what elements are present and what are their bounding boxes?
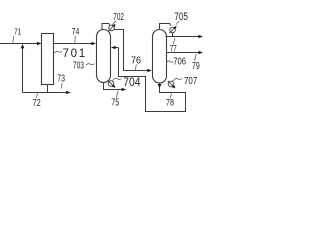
wire column 703 overhead stub	[102, 24, 110, 30]
wire condenser 705 outlet stub	[172, 33, 174, 37]
arrowhead into vessel 701	[37, 42, 42, 46]
svg-text:72: 72	[33, 98, 42, 109]
leader 73	[61, 83, 62, 89]
arrowhead line 75	[122, 88, 127, 92]
arrowhead recycle up	[21, 44, 25, 49]
wire distillate line 77	[166, 36, 199, 38]
leader tilde 703	[86, 64, 95, 65]
arrowhead line 74 into column 703	[91, 42, 96, 46]
arrowhead column 706 bottoms down	[158, 84, 162, 89]
wire recycle riser	[22, 48, 24, 93]
wire solvent loop	[119, 48, 186, 112]
leader 78	[170, 93, 172, 98]
column 703	[97, 30, 111, 83]
wire feed line 71	[0, 43, 37, 45]
leader 702	[112, 21, 116, 25]
svg-text:74: 74	[72, 26, 80, 36]
svg-text:702: 702	[113, 12, 124, 23]
leader 705	[176, 21, 180, 25]
arrowhead reflux into column 703	[111, 46, 116, 50]
arrowhead feed into column 706	[147, 69, 152, 73]
column 706	[153, 30, 167, 84]
leader tilde 707	[172, 78, 182, 81]
wire side draw line 79	[166, 52, 199, 54]
svg-text:78: 78	[166, 97, 174, 107]
svg-text:707: 707	[184, 76, 198, 87]
wire column 703 bottoms line 75	[104, 82, 122, 90]
arrowhead line 77	[198, 35, 203, 39]
svg-text:706: 706	[173, 57, 186, 68]
pump 702	[108, 24, 115, 31]
leader 71	[12, 36, 15, 43]
leader 76	[135, 64, 136, 70]
svg-text:77: 77	[170, 43, 177, 54]
leader tilde 706	[166, 61, 173, 62]
svg-text:73: 73	[57, 74, 65, 85]
svg-text:705: 705	[174, 11, 188, 23]
leader tilde 704	[112, 78, 121, 80]
svg-text:76: 76	[131, 56, 141, 67]
svg-text:701: 701	[63, 48, 86, 60]
wire line 74 to column 703	[54, 43, 92, 45]
svg-text:703: 703	[73, 61, 84, 72]
svg-text:75: 75	[111, 97, 119, 108]
leader 79	[195, 54, 197, 61]
leader 72	[36, 93, 38, 98]
svg-text:704: 704	[123, 75, 141, 89]
wire vessel 701 bottom stub	[47, 85, 49, 93]
pump 707	[168, 81, 176, 89]
wire bottoms line 73	[23, 92, 67, 94]
wire column 706 overhead stub	[160, 24, 172, 30]
wire condenser 702 outlet to column 706 feed	[114, 30, 148, 71]
arrowhead line 79	[198, 51, 203, 55]
leader 74	[74, 36, 77, 43]
svg-text:71: 71	[14, 28, 22, 37]
wire reflux return into column 703	[115, 47, 118, 49]
svg-text:79: 79	[192, 61, 200, 72]
pump 704	[108, 80, 116, 88]
leader 75	[116, 91, 118, 98]
leader 77	[173, 38, 174, 45]
pump 705	[169, 26, 176, 33]
vessel 701	[42, 34, 54, 85]
arrowhead line 73	[66, 91, 71, 95]
leader tilde 701	[55, 51, 63, 53]
